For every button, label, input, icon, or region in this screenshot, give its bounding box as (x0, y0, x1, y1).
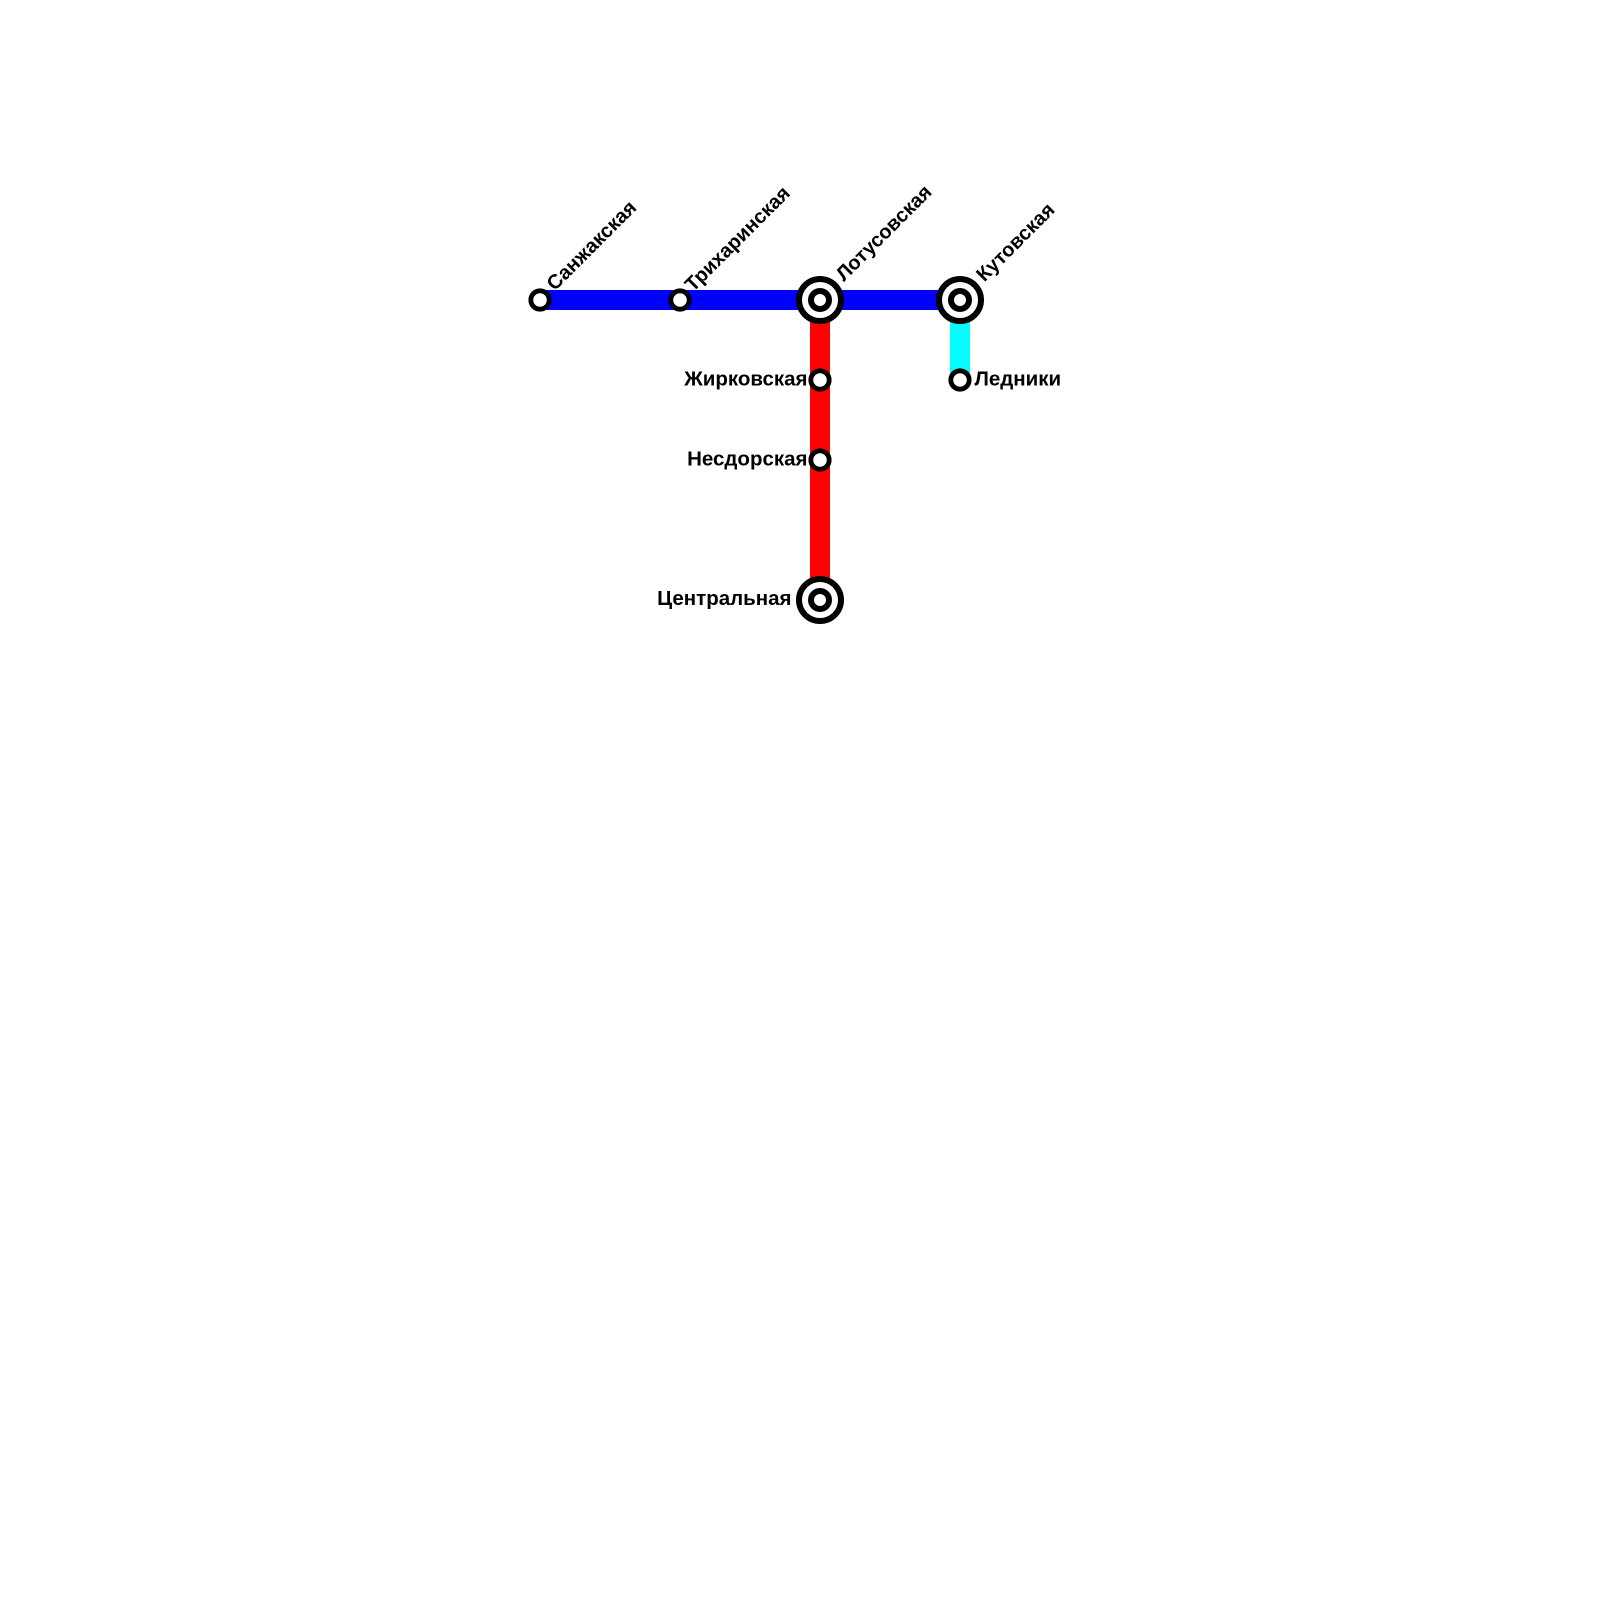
wire: blue line (Санжакская - Кутовская) (540, 290, 960, 310)
station Жирковская (811, 371, 829, 389)
interchange station Кутовская (939, 279, 981, 321)
interchange station Лотусовская (799, 279, 841, 321)
station Несдорская (811, 451, 829, 469)
svg-text:Центральная: Центральная (657, 587, 791, 610)
station Санжакская (531, 291, 549, 309)
interchange station Центральная (799, 579, 841, 621)
wire: cyan line (Кутовская - Ледники) (950, 300, 970, 380)
station Ледники (951, 371, 969, 389)
svg-text:Жирковская: Жирковская (683, 368, 807, 391)
svg-text:Ледники: Ледники (975, 367, 1062, 390)
wire: red line (Лотусовская - Центральная) (810, 300, 830, 600)
svg-text:Несдорская: Несдорская (687, 448, 807, 471)
station Трихаринская (671, 291, 689, 309)
